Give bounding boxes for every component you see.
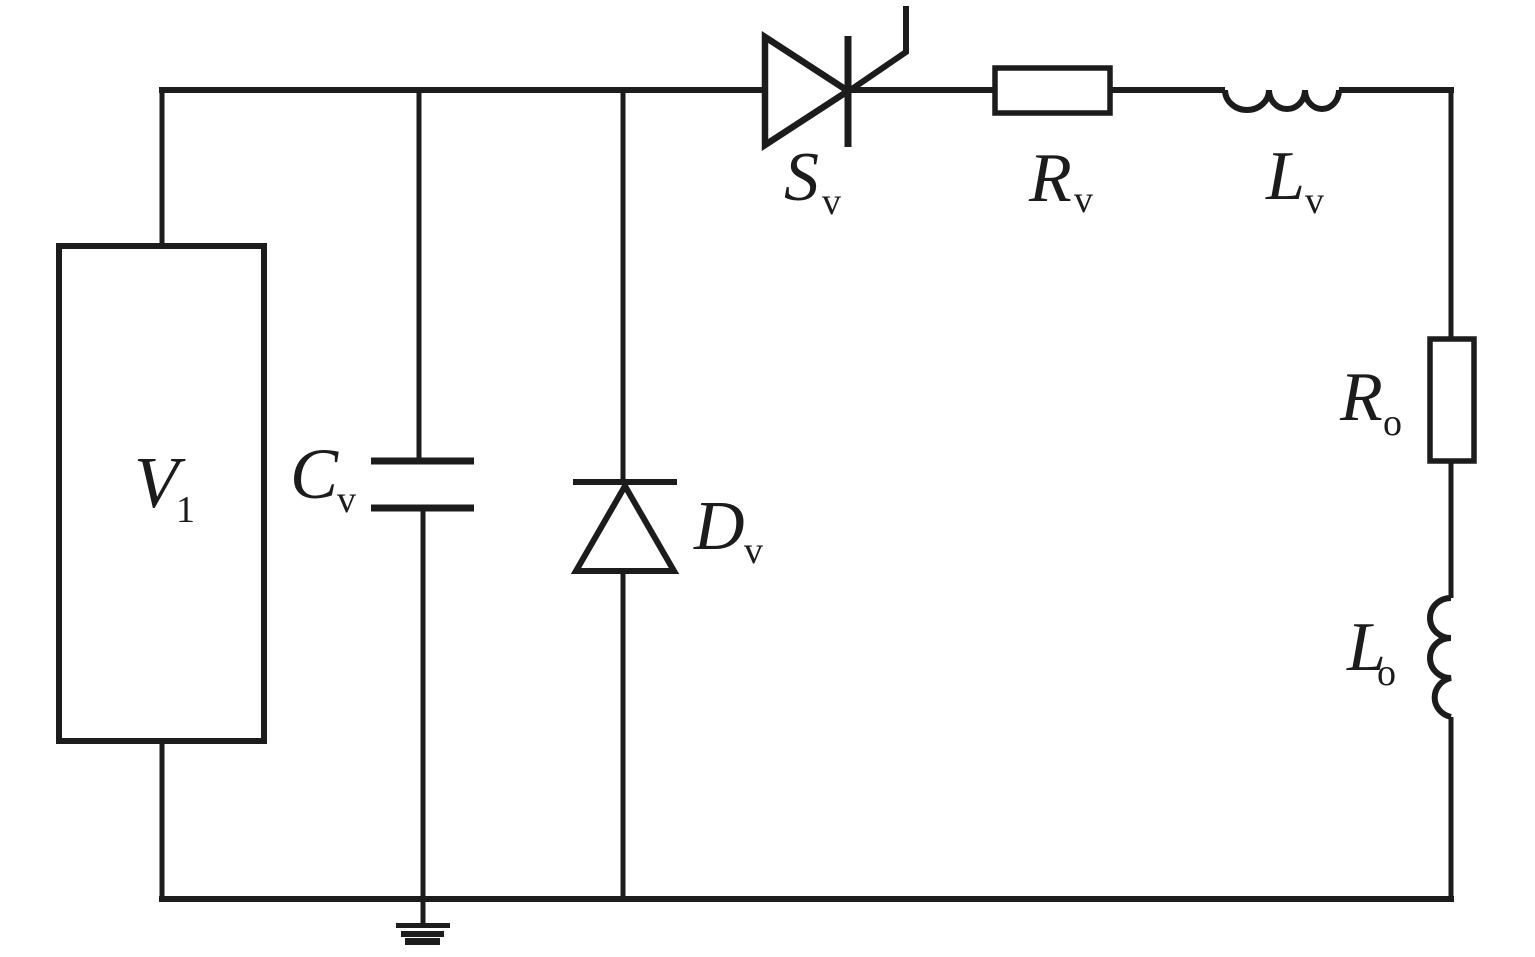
wire V1 bottom lead [160,741,165,902]
svg-text:C: C [290,434,339,514]
wire top horizontal from left corner to thyristor anode [159,87,768,93]
thyristor Sv anode triangle [765,37,848,145]
wire right vertical middle segment [1449,461,1454,598]
svg-text:v: v [1305,180,1324,222]
svg-text:v: v [744,530,763,572]
wire right vertical bottom segment [1449,717,1454,902]
svg-text:o: o [1377,652,1396,694]
inductor Lv [1225,90,1339,110]
wire right vertical top segment [1449,87,1454,341]
resistor Ro [1430,339,1474,461]
wire diode Dv top lead [621,87,626,482]
svg-text:R: R [1339,359,1383,436]
wire resistor Rv to inductor Lv [1110,87,1225,93]
wire left vertical to V1 [160,87,165,248]
thyristor Sv gate lead [849,6,906,91]
voltage source V1 [59,246,264,741]
svg-text:L: L [1265,138,1305,215]
svg-text:D: D [693,488,745,565]
wire thyristor cathode to resistor Rv [848,87,995,93]
thyristor Sv cathode bar [845,36,852,147]
svg-text:S: S [784,139,819,216]
ground [396,926,450,942]
wire inductor Lv to top-right corner [1339,87,1454,93]
svg-text:v: v [337,479,356,521]
inductor Lo [1430,598,1451,717]
wire capacitor Cv top lead [417,87,422,461]
capacitor Cv top plate [371,458,474,465]
svg-text:v: v [822,181,841,223]
wire bottom horizontal [159,896,1454,902]
wire diode Dv bottom lead [621,571,626,899]
resistor Rv [995,68,1110,113]
svg-text:R: R [1028,140,1072,217]
capacitor Cv bottom plate [371,505,474,512]
diode Dv cathode bar [573,479,677,485]
svg-text:o: o [1383,402,1402,444]
svg-text:v: v [1074,179,1093,221]
diode Dv triangle [576,486,674,571]
svg-text:1: 1 [176,489,195,531]
wire capacitor Cv bottom lead to ground [421,508,426,923]
